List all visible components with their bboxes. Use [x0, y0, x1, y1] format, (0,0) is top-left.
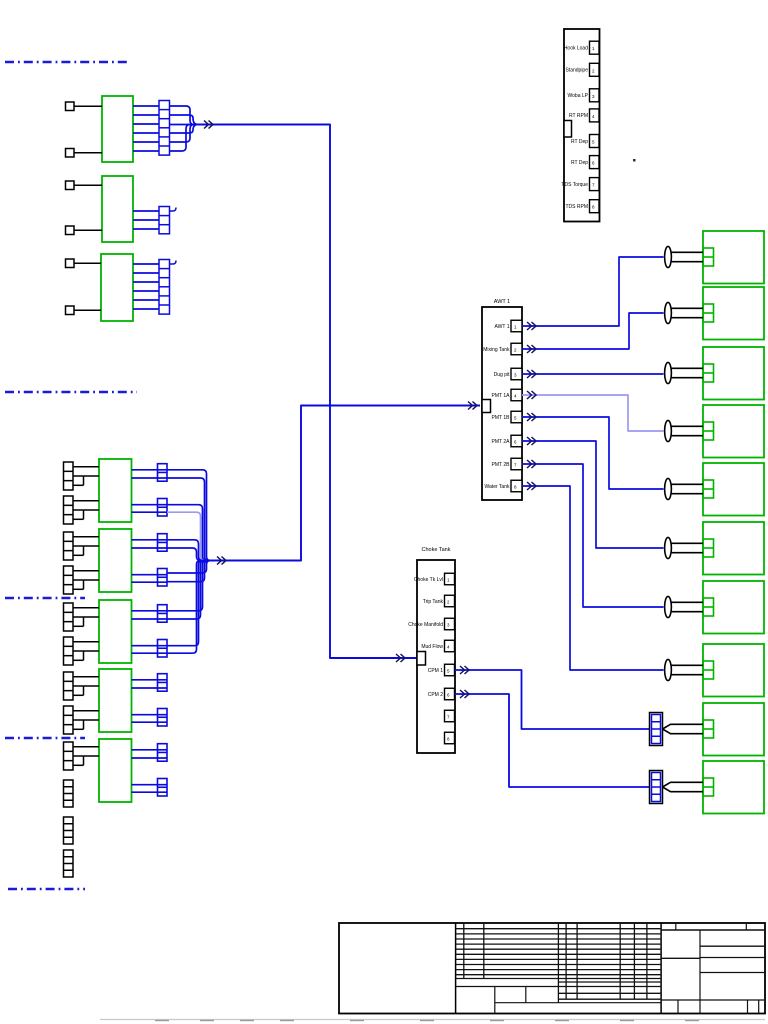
svg-text:CPM 2: CPM 2	[428, 692, 444, 698]
svg-text:Water Tank: Water Tank	[484, 484, 510, 490]
svg-text:TDS Torque: TDS Torque	[561, 182, 588, 188]
svg-text:AWT 1: AWT 1	[494, 299, 511, 305]
svg-text:PMT 1B: PMT 1B	[492, 415, 511, 421]
svg-text:Mud Flow: Mud Flow	[421, 644, 443, 650]
svg-text:Trip Tank: Trip Tank	[423, 599, 444, 605]
svg-text:Choke Tank: Choke Tank	[422, 547, 451, 553]
svg-text:TDS RPM: TDS RPM	[566, 204, 589, 210]
svg-text:Mixing Tank: Mixing Tank	[483, 347, 510, 353]
svg-text:Choke Tk Lvl: Choke Tk Lvl	[414, 577, 443, 583]
svg-text:Dug pit: Dug pit	[494, 372, 510, 378]
svg-text:RT Dep: RT Dep	[571, 139, 588, 145]
svg-text:CPM 1: CPM 1	[428, 668, 444, 674]
svg-text:Standpipe: Standpipe	[565, 68, 588, 74]
svg-text:PMT 2A: PMT 2A	[492, 439, 511, 445]
svg-text:AWT 1: AWT 1	[494, 324, 509, 330]
svg-text:Choke Manifold: Choke Manifold	[408, 622, 443, 628]
svg-text:PMT 1A: PMT 1A	[492, 393, 511, 399]
svg-text:PMT 2B: PMT 2B	[492, 462, 511, 468]
svg-text:RT Dep: RT Dep	[571, 160, 588, 166]
svg-text:Hook Load: Hook Load	[564, 46, 588, 52]
svg-text:RT RPM: RT RPM	[569, 113, 588, 119]
svg-text:Woba LP: Woba LP	[568, 93, 589, 99]
